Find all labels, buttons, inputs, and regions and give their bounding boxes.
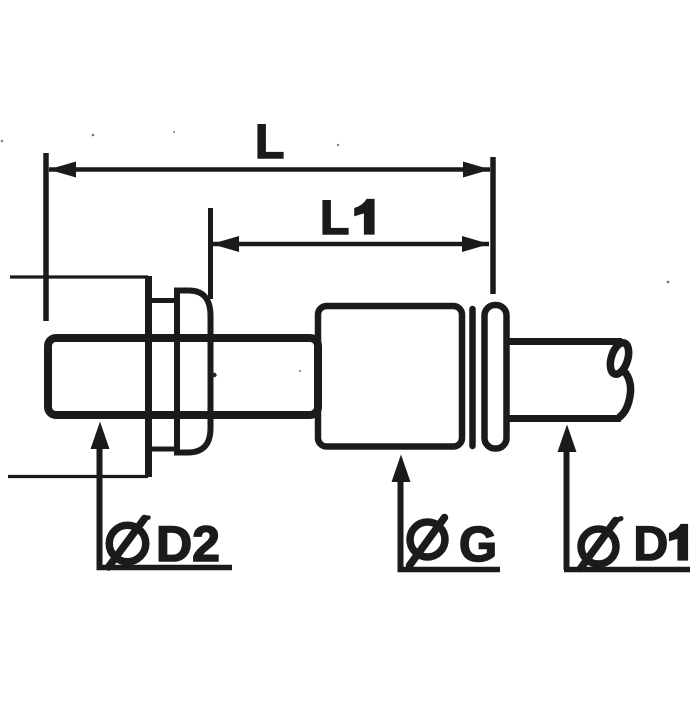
arrowhead L left [49, 162, 77, 178]
underline D1 [564, 567, 690, 573]
dimension line L1 [212, 242, 489, 247]
groove bar [469, 309, 476, 446]
svg-text:G: G [459, 518, 497, 572]
diameter symbol G slash [410, 518, 445, 566]
leader arrow G [392, 455, 411, 483]
flange left face [145, 276, 152, 477]
scan speck [299, 370, 301, 372]
domed collar outline [174, 291, 211, 453]
flange neck bottom step [149, 447, 178, 452]
svg-text:L: L [255, 116, 284, 169]
diameter symbol D1 slash [581, 521, 616, 569]
diameter symbol D1 slash tip [615, 519, 621, 522]
svg-text:D: D [634, 518, 669, 571]
scan speck [337, 144, 339, 146]
scan speck [173, 131, 175, 133]
dimension line L [49, 167, 490, 172]
extension line left of dimension L [43, 153, 49, 321]
underline G [398, 567, 501, 573]
diameter symbol D2 slash [109, 519, 145, 568]
diameter symbol G circle [410, 522, 445, 557]
left shaft body (diameter D2) [48, 338, 318, 415]
arrowhead L1 left [212, 236, 240, 252]
right shaft bottom line [509, 415, 621, 422]
scan speck on collar edge [212, 373, 216, 377]
diameter symbol D1 circle [581, 529, 616, 564]
arrowhead L1 right [462, 236, 490, 252]
flange neck top step [149, 298, 178, 303]
leader line G [398, 479, 404, 570]
diameter symbol D2 circle [109, 525, 146, 562]
leader line D1 [564, 449, 570, 570]
domed collar left edge [174, 288, 180, 456]
break symbol tail [619, 370, 631, 418]
diameter symbol D2 slash tip [145, 518, 149, 520]
right shaft top line (diameter D1) [509, 338, 622, 345]
retaining ring [485, 305, 507, 449]
svg-text:D2: D2 [156, 516, 220, 572]
break symbol loop [607, 341, 632, 377]
leader arrow D1 [558, 425, 577, 453]
scan speck [1, 140, 4, 143]
extension line left of dimension L1 [208, 208, 213, 299]
leader arrow D2 [91, 422, 110, 450]
hex body block (diameter G) [318, 306, 462, 447]
extension line right of dimension L [490, 157, 496, 294]
scan speck [92, 134, 95, 137]
arrowhead L right [463, 162, 491, 178]
projection line lower left [8, 475, 148, 478]
leader line D2 [97, 446, 103, 567]
label L1 digit 1 [355, 200, 374, 235]
svg-text:L: L [320, 192, 349, 245]
underline D2 [97, 565, 233, 571]
scan speck [667, 281, 670, 284]
projection line upper left [10, 275, 148, 278]
label D1 digit 1 [670, 525, 688, 561]
